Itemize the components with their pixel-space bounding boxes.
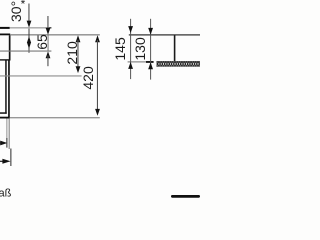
svg-text:*: * bbox=[21, 0, 26, 11]
svg-text:65: 65 bbox=[34, 34, 50, 50]
svg-text:420: 420 bbox=[80, 66, 96, 90]
svg-text:aß: aß bbox=[0, 187, 12, 199]
svg-text:130: 130 bbox=[132, 37, 148, 61]
svg-text:210: 210 bbox=[64, 41, 80, 65]
svg-text:145: 145 bbox=[112, 37, 128, 61]
